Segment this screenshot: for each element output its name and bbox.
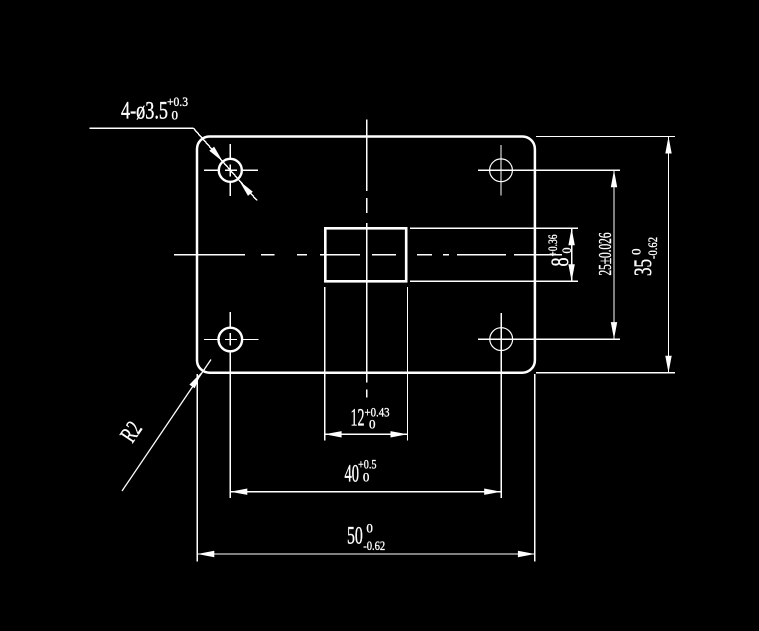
- svg-text:4-ø3.5: 4-ø3.5: [121, 98, 168, 125]
- slot rectangle: [325, 228, 406, 281]
- svg-text:0: 0: [628, 249, 643, 256]
- svg-text:-0.62: -0.62: [645, 237, 660, 259]
- dimension 50 extension lines: [197, 374, 535, 562]
- svg-text:25±0.026: 25±0.026: [595, 233, 615, 276]
- label 50 tol: [347, 520, 385, 552]
- hole top-left: [219, 159, 242, 182]
- svg-text:+0.36: +0.36: [545, 234, 560, 256]
- dimension 12 line: [325, 433, 408, 435]
- leader for hole diameter 4-o3.5: [90, 128, 258, 200]
- svg-text:40: 40: [345, 461, 360, 488]
- svg-text:-0.62: -0.62: [363, 538, 385, 553]
- hole bottom-right: [490, 328, 513, 351]
- svg-text:50: 50: [347, 522, 363, 549]
- label 25+-0.026 (rotated): [595, 233, 615, 276]
- dimension 25 line: [613, 170, 615, 339]
- plate outline: [197, 137, 535, 373]
- label 40 tol: [345, 456, 377, 487]
- dimension 35 line: [668, 137, 670, 373]
- hole bottom-right centerlines + extensions: [478, 313, 620, 498]
- svg-text:0: 0: [363, 470, 370, 485]
- dimension 8 extension lines: [410, 228, 578, 281]
- svg-text:35: 35: [630, 259, 657, 276]
- horizontal centerline: [174, 254, 562, 256]
- vertical centerline: [366, 120, 368, 398]
- leader arrow upper: [209, 147, 223, 162]
- dimension 8 line: [571, 228, 573, 281]
- dimension 12 extension lines: [325, 287, 408, 441]
- hole top-right centerlines + extension to 25 dim: [478, 145, 620, 196]
- hole top-right: [490, 159, 513, 182]
- label 12 tol: [351, 404, 390, 431]
- hole top-left centerlines: [204, 144, 258, 196]
- svg-text:0: 0: [172, 108, 179, 123]
- hole bottom-left centerlines + extension down to 40 dim: [204, 312, 259, 498]
- label 4-o3.5 tol: [121, 94, 188, 125]
- svg-text:12: 12: [351, 404, 365, 431]
- dimension 35 extension lines: [536, 137, 675, 373]
- svg-text:0: 0: [369, 416, 376, 431]
- label 35 tol (rotated): [628, 237, 660, 276]
- dimension 50 line: [197, 553, 535, 555]
- hole bottom-left: [219, 328, 243, 352]
- svg-text:0: 0: [366, 520, 373, 535]
- label 8 tol (rotated): [545, 234, 574, 266]
- svg-text:8: 8: [547, 258, 574, 267]
- svg-text:0: 0: [559, 248, 574, 254]
- dimension 40 line: [230, 491, 501, 493]
- leader arrow lower: [239, 181, 253, 196]
- leader R2 arrow: [189, 372, 201, 388]
- leader R2: [122, 360, 211, 492]
